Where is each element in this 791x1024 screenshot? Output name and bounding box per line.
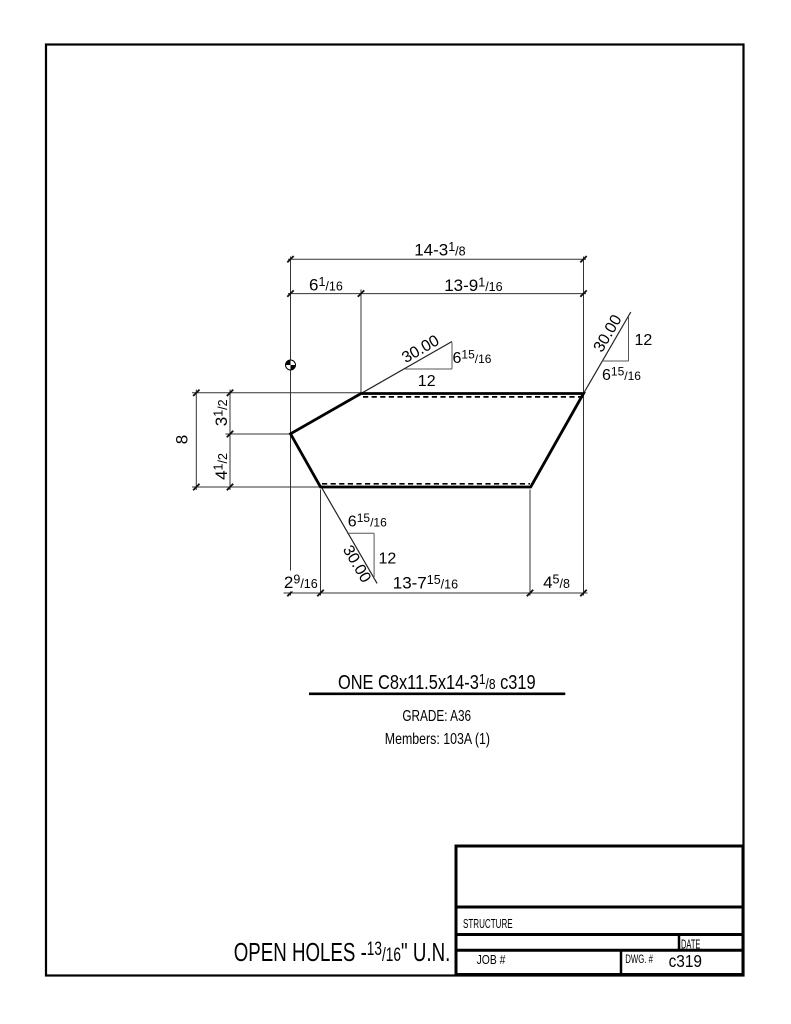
svg-text:DWG. #: DWG. # <box>625 954 653 967</box>
title block outer box <box>456 846 743 975</box>
svg-text:ONE C8x11.5x14-31/8 c319: ONE C8x11.5x14-31/8 c319 <box>338 670 536 693</box>
svg-text:8: 8 <box>173 435 192 444</box>
svg-text:STRUCTURE: STRUCTURE <box>463 917 513 931</box>
title block line below STRUCTURE row <box>456 933 743 936</box>
svg-text:DATE: DATE <box>681 939 701 952</box>
extension line bottom-left corner (x=320.5) <box>320 490 322 596</box>
slope triangle C horizontal leg <box>347 532 374 534</box>
extension line left (x=290.5) <box>290 257 292 596</box>
slope reference line upper-left bevel extended <box>291 342 453 434</box>
dimension line 8 (x=196.3) <box>195 390 197 491</box>
dimension line 6 1/16 / 13-9 1/16 (y=293.6) <box>288 293 586 295</box>
svg-text:c319: c319 <box>669 952 702 971</box>
svg-text:12: 12 <box>379 551 397 568</box>
slope triangle B vertical leg <box>628 317 630 362</box>
svg-text:12: 12 <box>418 373 436 390</box>
extension line mid-top (x=361) <box>360 290 362 394</box>
slope reference line lower-left bevel extended <box>291 434 378 584</box>
center of gravity symbol <box>285 360 296 371</box>
svg-text:12: 12 <box>635 332 653 349</box>
dimension line 3 1/2 + 4 1/2 (x=230) <box>229 390 231 491</box>
extension line bottom-right corner (x=530) <box>529 490 531 596</box>
svg-text:Members: 103A (1): Members: 103A (1) <box>385 729 490 747</box>
slope triangle A vertical leg <box>451 343 453 370</box>
title block JOB/DWG divider <box>620 950 623 974</box>
extension line right (x=583.5) <box>583 257 585 596</box>
title underline <box>309 692 565 695</box>
slope reference line right bevel extended <box>584 312 631 394</box>
extension line top edge level (y=392.8) <box>192 392 361 394</box>
dimension line 14-3 1/8 (y=259.2) <box>288 258 586 260</box>
tick marks <box>193 256 587 596</box>
dashed flange line bottom <box>322 483 530 485</box>
title block line below big cell <box>456 906 743 909</box>
extension line tip level (y=434) <box>225 433 290 435</box>
dashed flange line top <box>363 396 583 398</box>
extension line bottom edge level (y=487) <box>192 486 320 488</box>
title block DATE cell divider <box>678 935 681 951</box>
title block line below DATE row <box>456 949 743 952</box>
white mask under 2 9/16 <box>282 571 321 592</box>
slope triangle B horizontal leg <box>602 360 628 362</box>
svg-text:OPEN HOLES -13/16" U.N.: OPEN HOLES -13/16" U.N. <box>234 937 451 967</box>
slope triangle C vertical leg <box>373 533 375 577</box>
dimension line bottom (y=593) <box>284 592 588 594</box>
svg-text:JOB #: JOB # <box>477 954 506 967</box>
slope triangle A horizontal leg <box>405 368 452 370</box>
member outline <box>291 394 584 488</box>
svg-text:GRADE: A36: GRADE: A36 <box>402 707 471 724</box>
